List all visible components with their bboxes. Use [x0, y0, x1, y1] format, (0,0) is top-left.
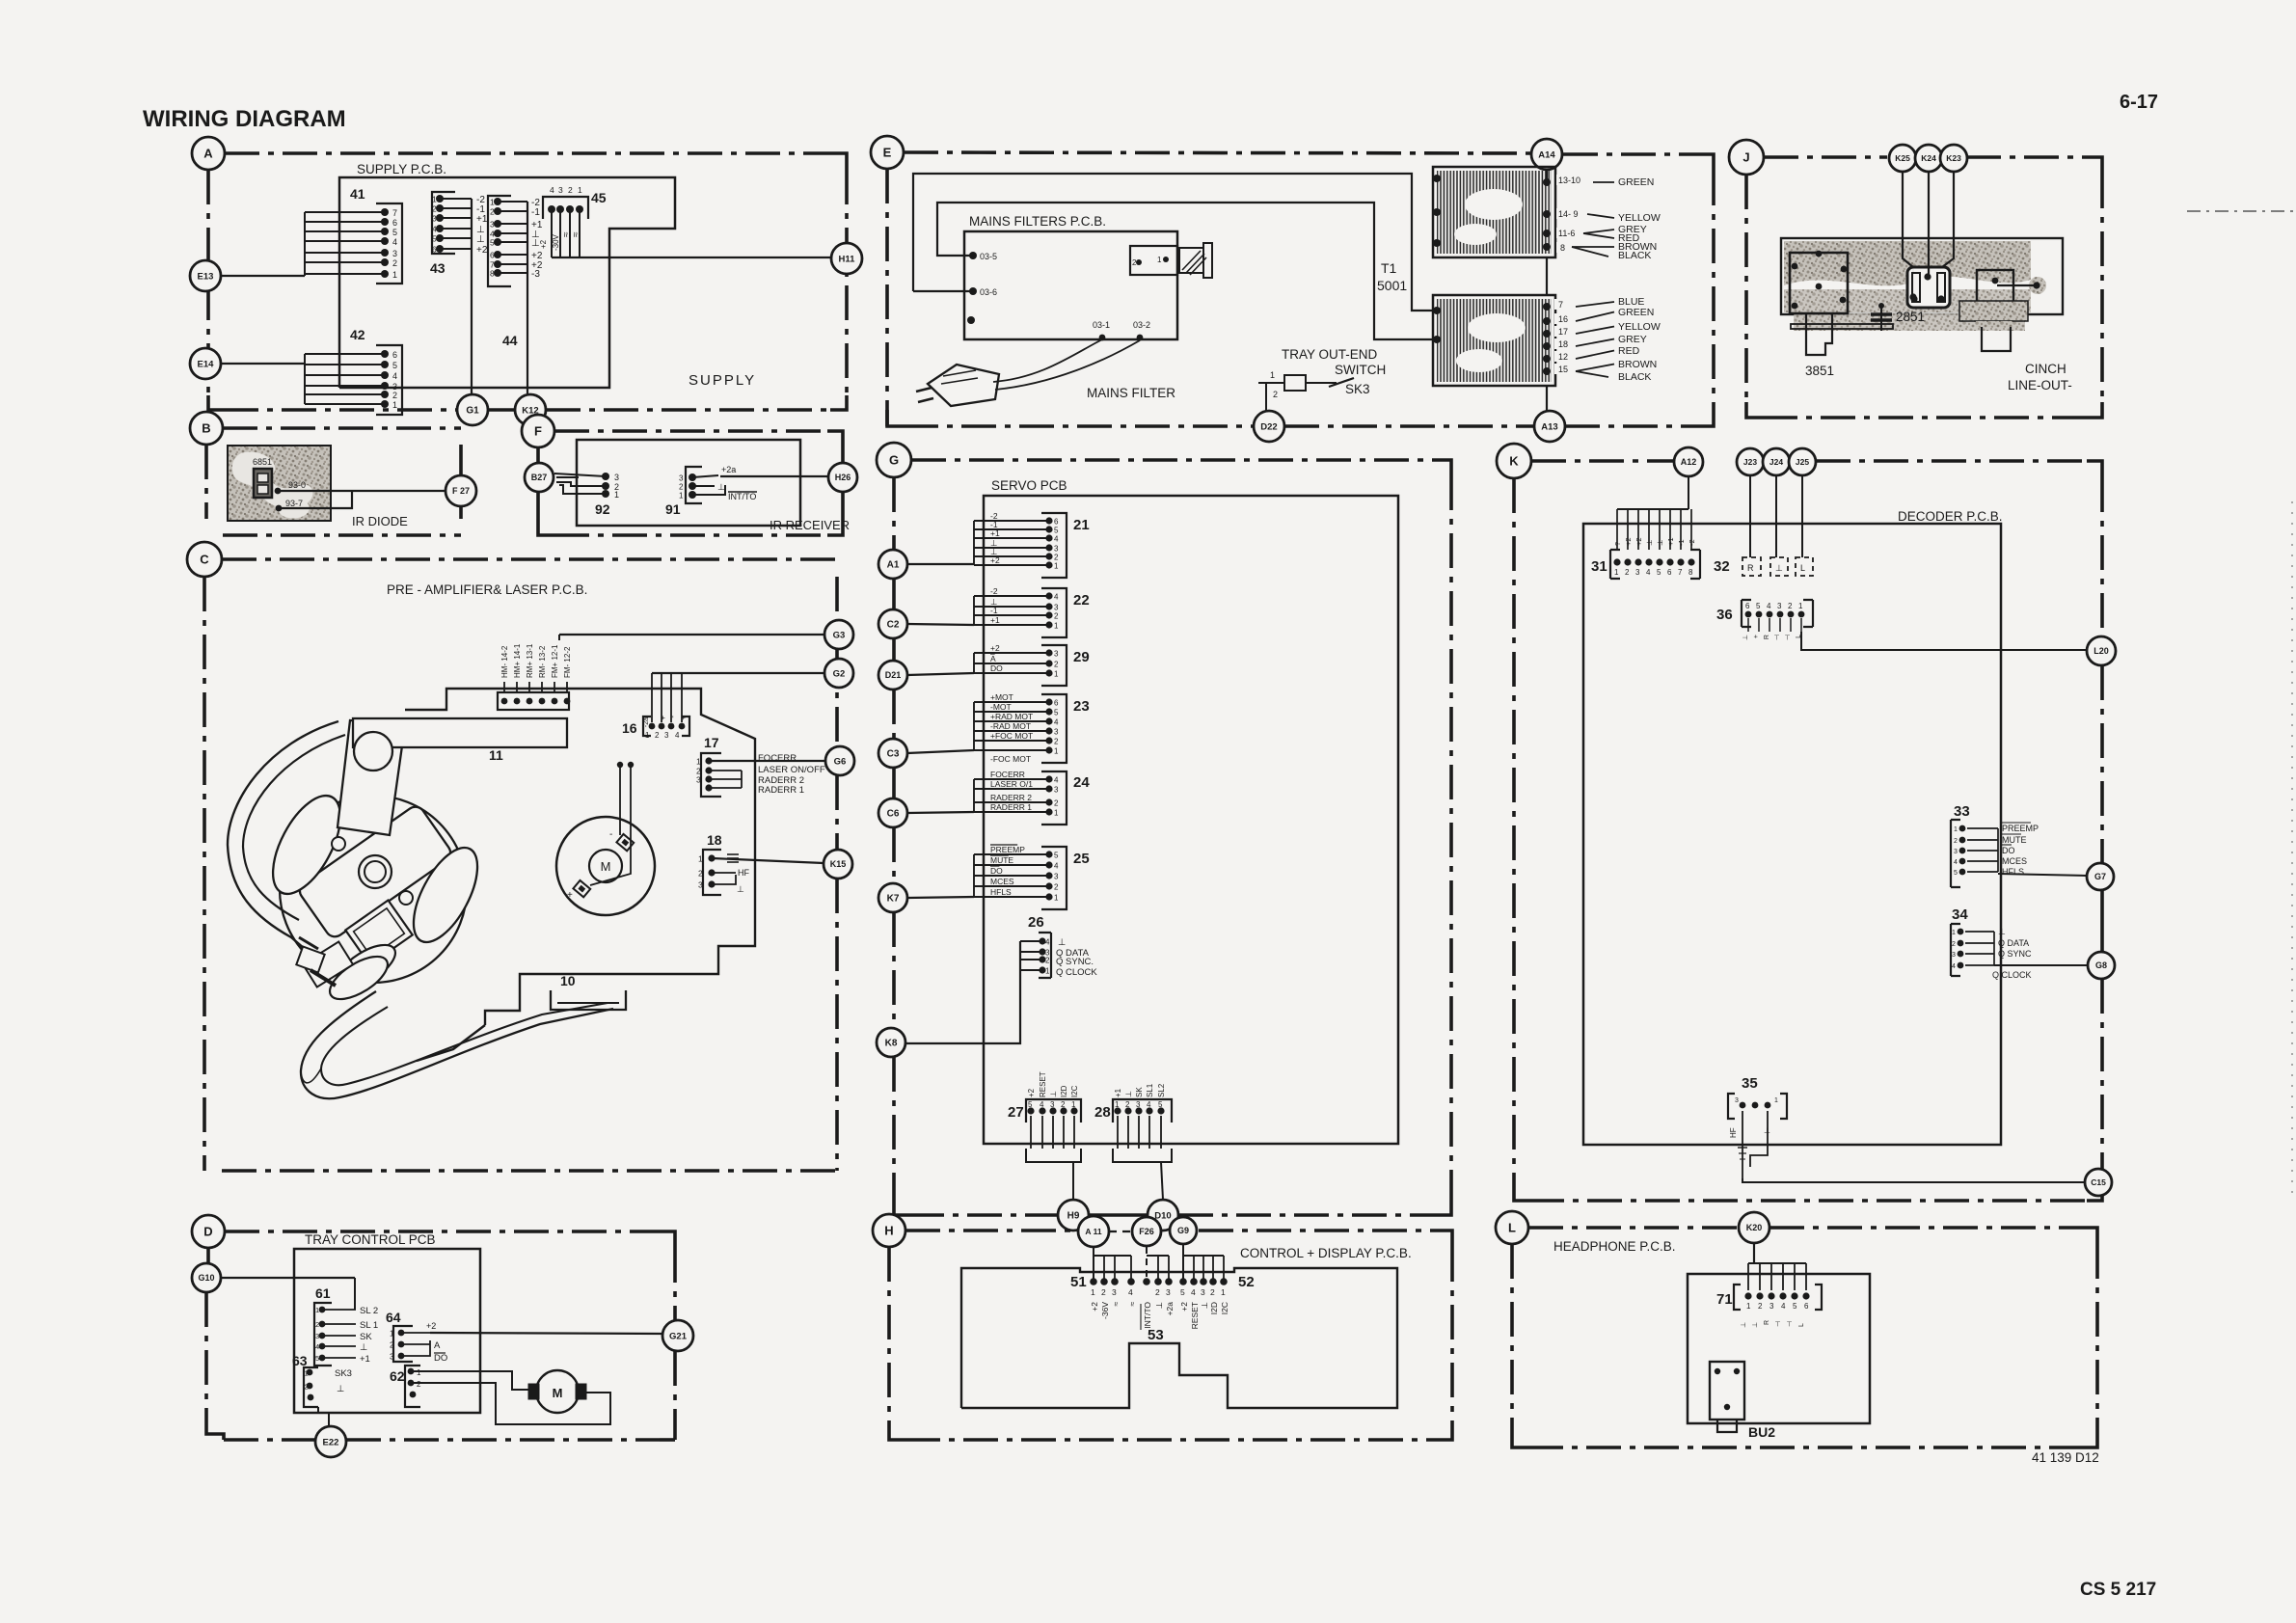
svg-text:R: R	[1747, 563, 1754, 573]
node K15	[824, 850, 852, 879]
wires connector 16 to G2	[643, 673, 825, 727]
svg-text:5: 5	[490, 238, 495, 248]
svg-text:2: 2	[1054, 738, 1059, 746]
svg-text:1: 1	[1054, 622, 1059, 631]
svg-text:GREEN: GREEN	[1618, 176, 1654, 188]
node C6	[878, 798, 907, 827]
svg-text:52: 52	[1238, 1274, 1255, 1290]
connector 64	[386, 1310, 413, 1362]
connector 41	[350, 186, 402, 284]
supply PCB outline	[339, 177, 675, 388]
svg-text:-1: -1	[990, 606, 998, 615]
svg-text:2: 2	[1625, 568, 1630, 577]
connector 18	[698, 832, 722, 895]
svg-text:+2a: +2a	[721, 465, 736, 474]
svg-text:SWITCH: SWITCH	[1335, 363, 1386, 377]
svg-text:H26: H26	[835, 473, 851, 482]
wire connector 17 to G6	[709, 760, 825, 762]
svg-text:2: 2	[305, 1383, 309, 1392]
svg-text:⊥: ⊥	[1752, 1322, 1759, 1328]
svg-text:2: 2	[417, 1380, 421, 1389]
svg-text:DECODER P.C.B.: DECODER P.C.B.	[1898, 509, 2003, 524]
svg-text:L: L	[1798, 1323, 1805, 1327]
svg-text:Q SYNC: Q SYNC	[1998, 949, 2032, 959]
svg-text:-FOC MOT: -FOC MOT	[990, 754, 1031, 764]
node H9	[1058, 1200, 1089, 1231]
svg-text:HM- 14-2: HM- 14-2	[500, 645, 509, 678]
svg-text:6-17: 6-17	[2120, 92, 2158, 113]
svg-text:3: 3	[1777, 602, 1782, 610]
svg-text:CS 5 217: CS 5 217	[2080, 1580, 2156, 1600]
wires connector 28 to D10	[1113, 1116, 1172, 1200]
svg-text:RADERR 2: RADERR 2	[990, 793, 1032, 802]
connector 34	[1951, 906, 2032, 980]
terminal blank	[967, 316, 975, 324]
scan artifact line right margin	[2187, 211, 2294, 1196]
wire J24 to socket	[1775, 475, 1777, 557]
svg-text:8: 8	[490, 269, 495, 279]
svg-text:HF: HF	[738, 868, 749, 878]
svg-text:2: 2	[315, 1320, 319, 1329]
svg-text:4: 4	[392, 371, 397, 381]
connector 24	[974, 770, 1090, 825]
svg-text:SK: SK	[360, 1332, 372, 1342]
svg-text:+FOC MOT: +FOC MOT	[990, 731, 1033, 741]
svg-text:A12: A12	[1681, 457, 1697, 467]
svg-text:J24: J24	[1769, 457, 1783, 467]
svg-text:DO: DO	[990, 866, 1003, 876]
wires connector 45	[539, 209, 581, 257]
svg-text:51: 51	[1070, 1274, 1087, 1290]
svg-text:4: 4	[550, 185, 554, 195]
svg-text:G6: G6	[834, 756, 847, 767]
svg-text:⊥: ⊥	[1058, 937, 1066, 948]
connector 28	[1094, 1083, 1172, 1123]
svg-text:4: 4	[392, 237, 397, 247]
svg-text:PRE - AMPLIFIER& LASER P.C.B: PRE - AMPLIFIER& LASER P.C.B.	[387, 582, 587, 597]
svg-text:7: 7	[1558, 300, 1563, 310]
svg-text:4: 4	[1781, 1302, 1786, 1311]
wire mains left harness B	[937, 203, 1435, 339]
node H26	[828, 463, 857, 492]
wire C2 to connector 22	[907, 624, 974, 625]
svg-text:4: 4	[1646, 568, 1651, 577]
svg-text:Q CLOCK: Q CLOCK	[1056, 967, 1097, 978]
svg-text:2: 2	[1210, 1287, 1215, 1297]
connector 32 sockets R ground L	[1714, 557, 1813, 576]
svg-text:4: 4	[1054, 535, 1059, 544]
connector 35	[1728, 1075, 1787, 1119]
wires connector 91 labels	[692, 465, 757, 501]
node E13	[190, 260, 221, 291]
svg-text:12: 12	[1558, 352, 1568, 362]
wire C6 to connector 24	[907, 812, 974, 813]
svg-text:G1: G1	[466, 406, 479, 417]
svg-text:41 139 D12: 41 139 D12	[2032, 1450, 2099, 1465]
label HEADPHONE P.C.B.	[1553, 1239, 1676, 1254]
svg-text:5: 5	[1054, 852, 1059, 860]
wire IR diode to F27	[278, 491, 446, 508]
control display PCB outline	[961, 1268, 1397, 1408]
svg-text:17: 17	[1558, 327, 1568, 337]
svg-text:MAINS FILTER: MAINS FILTER	[1087, 386, 1175, 400]
svg-text:G7: G7	[2094, 872, 2106, 881]
svg-text:1: 1	[1054, 747, 1059, 756]
svg-text:E: E	[883, 146, 892, 160]
tray control PCB outline	[294, 1249, 480, 1413]
svg-text:2: 2	[392, 258, 397, 268]
svg-text:6: 6	[392, 350, 397, 360]
section C border	[204, 559, 837, 1171]
svg-text:PREEMP: PREEMP	[2002, 824, 2039, 833]
svg-text:G9: G9	[1177, 1226, 1189, 1235]
node D21	[878, 661, 907, 690]
svg-text:2: 2	[1054, 661, 1059, 669]
svg-text:45: 45	[591, 190, 607, 205]
svg-text:3: 3	[1112, 1287, 1117, 1297]
svg-text:HF: HF	[1729, 1127, 1738, 1138]
svg-text:⊥: ⊥	[1200, 1301, 1209, 1309]
svg-text:21: 21	[1073, 517, 1090, 533]
node G3	[824, 620, 853, 649]
svg-text:I2D: I2D	[1060, 1085, 1068, 1097]
svg-text:FOCERR: FOCERR	[990, 770, 1025, 779]
svg-text:K25: K25	[1895, 153, 1910, 163]
svg-text:SL2: SL2	[1157, 1083, 1166, 1097]
svg-text:1: 1	[392, 270, 397, 280]
svg-text:32: 32	[1714, 558, 1730, 575]
label 93-7	[276, 499, 303, 511]
node H11	[831, 243, 862, 274]
line-out PCB photo	[1781, 238, 2063, 331]
svg-text:F 27: F 27	[452, 486, 470, 496]
svg-text:5: 5	[1054, 709, 1059, 717]
svg-text:⊥: ⊥	[717, 482, 725, 492]
svg-text:-2a: -2a	[643, 717, 650, 727]
svg-text:3: 3	[1635, 568, 1640, 577]
wires plug to 03-1 03-2	[993, 339, 1140, 390]
node K	[1497, 444, 1531, 478]
label SERVO PCB	[991, 478, 1067, 493]
svg-text:RM+ 13-1: RM+ 13-1	[526, 643, 534, 678]
svg-text:F26: F26	[1139, 1227, 1154, 1236]
node B27	[525, 463, 554, 492]
wire mains left harness A	[913, 174, 1435, 311]
wire G9 to pins	[1183, 1245, 1224, 1282]
node G1	[457, 394, 488, 425]
svg-text:2: 2	[432, 204, 437, 214]
svg-text:2: 2	[1132, 258, 1137, 267]
svg-text:FM- 12-2: FM- 12-2	[563, 646, 572, 678]
svg-text:G3: G3	[833, 630, 846, 640]
svg-text:5: 5	[1180, 1287, 1185, 1297]
node A11	[1078, 1216, 1109, 1247]
svg-text:I2D: I2D	[1209, 1302, 1219, 1314]
wire C3 to connector 23	[907, 750, 974, 753]
svg-text:3: 3	[390, 1353, 394, 1362]
section A border	[208, 153, 847, 410]
svg-text:RADERR 1: RADERR 1	[758, 785, 804, 796]
svg-text:HFLS: HFLS	[990, 887, 1012, 897]
wire supply PCB to H11	[552, 257, 831, 258]
connector 21	[974, 511, 1090, 578]
svg-text:Q SYNC.: Q SYNC.	[1056, 957, 1094, 967]
svg-text:D: D	[203, 1225, 212, 1239]
svg-text:5: 5	[1054, 527, 1059, 535]
svg-text:C15: C15	[2091, 1177, 2106, 1187]
svg-text:Q CLOCK: Q CLOCK	[1992, 970, 2032, 980]
svg-text:2: 2	[1054, 799, 1059, 808]
label IR RECEIVER	[770, 518, 850, 532]
svg-text:K24: K24	[1921, 153, 1936, 163]
svg-text:5: 5	[1756, 602, 1761, 610]
wire connector 36 to L20	[1801, 632, 2087, 650]
svg-text:2: 2	[1054, 554, 1059, 562]
wire connector 91 to H26	[720, 475, 828, 477]
wire E13 to connector 41	[221, 275, 305, 277]
label PRE-AMPLIFIER & LASER P.C.B.	[387, 582, 587, 597]
node C15	[2085, 1169, 2112, 1196]
svg-text:-3: -3	[531, 269, 540, 280]
connector 11	[489, 643, 572, 763]
svg-text:+2: +2	[1027, 1088, 1036, 1097]
node C2	[878, 609, 907, 638]
svg-text:6: 6	[1054, 699, 1059, 708]
svg-text:62: 62	[390, 1368, 405, 1384]
terminal 03-2	[1133, 320, 1150, 340]
svg-text:1: 1	[698, 854, 703, 864]
svg-text:RED: RED	[1618, 345, 1640, 357]
svg-text:63: 63	[292, 1353, 308, 1368]
svg-text:1: 1	[679, 492, 684, 500]
svg-text:Q DATA: Q DATA	[1998, 938, 2029, 948]
svg-text:+MOT: +MOT	[990, 692, 1013, 702]
svg-text:18: 18	[707, 832, 722, 848]
svg-text:⊣: ⊣	[1774, 635, 1781, 640]
svg-text:5: 5	[1158, 1100, 1163, 1109]
svg-text:4: 4	[1054, 776, 1059, 785]
svg-text:⊥: ⊥	[1154, 1301, 1164, 1309]
node J	[1729, 140, 1764, 175]
svg-text:2: 2	[390, 1341, 394, 1350]
svg-text:2: 2	[1273, 390, 1278, 399]
svg-text:+2a: +2a	[1165, 1302, 1175, 1316]
svg-text:K8: K8	[885, 1039, 898, 1049]
svg-text:5001: 5001	[1377, 278, 1407, 293]
connector 10 bracket	[551, 990, 626, 1010]
svg-text:FOCERR: FOCERR	[758, 753, 797, 764]
svg-text:1: 1	[696, 757, 701, 767]
svg-text:SUPPLY P.C.B.: SUPPLY P.C.B.	[357, 162, 446, 176]
svg-text:1: 1	[1614, 568, 1619, 577]
wire connector 44 to K12	[527, 202, 528, 393]
node E22	[315, 1426, 346, 1457]
IR receiver board outline	[577, 440, 800, 526]
page number 6-17	[2120, 92, 2158, 113]
svg-text:3: 3	[1201, 1287, 1205, 1297]
svg-text:A: A	[203, 147, 213, 161]
node G7	[2087, 863, 2114, 890]
wires connector 41 harness	[305, 212, 385, 276]
svg-text:2: 2	[490, 207, 495, 217]
section F border	[538, 431, 843, 535]
svg-text:3: 3	[1952, 952, 1956, 959]
svg-text:2: 2	[1054, 883, 1059, 892]
mains switch component	[1130, 246, 1177, 275]
headphone PCB outline	[1688, 1274, 1870, 1423]
svg-text:4: 4	[1040, 1100, 1044, 1109]
node G2	[824, 659, 853, 688]
svg-text:91: 91	[665, 501, 681, 517]
wire K7 to connector 25	[907, 897, 974, 898]
svg-text:J23: J23	[1743, 457, 1757, 467]
svg-text:28: 28	[1094, 1104, 1111, 1121]
label CONTROL+DISPLAY P.C.B.	[1240, 1246, 1412, 1260]
svg-text:4: 4	[1054, 593, 1059, 602]
node D22	[1254, 411, 1284, 442]
svg-text:17: 17	[704, 735, 719, 750]
svg-text:SUPPLY: SUPPLY	[689, 372, 756, 389]
svg-text:IR DIODE: IR DIODE	[352, 514, 408, 528]
svg-text:34: 34	[1952, 906, 1968, 923]
svg-text:3: 3	[1054, 604, 1059, 612]
svg-text:L20: L20	[2093, 646, 2109, 656]
label MAINS FILTER	[1087, 386, 1175, 400]
svg-text:2: 2	[655, 731, 660, 740]
svg-text:1: 1	[1798, 602, 1803, 610]
PCB mounting feet	[1791, 313, 1893, 355]
connector 52 pins	[1179, 1274, 1255, 1329]
wire connector 62 to motor	[411, 1371, 529, 1390]
svg-text:1: 1	[1054, 809, 1059, 818]
svg-text:4: 4	[1128, 1287, 1133, 1297]
svg-text:1: 1	[1115, 1100, 1120, 1109]
svg-text:BLACK: BLACK	[1618, 250, 1651, 261]
svg-text:11-6: 11-6	[1558, 229, 1575, 238]
svg-text:⊥: ⊥	[1741, 1322, 1747, 1328]
svg-text:5: 5	[432, 234, 437, 244]
wires connector 27 to H9	[1026, 1116, 1081, 1200]
svg-text:C6: C6	[887, 809, 900, 820]
svg-text:A: A	[990, 654, 996, 663]
connector 61	[314, 1285, 378, 1366]
line-out relay component	[1907, 267, 1950, 308]
transformer T1 upper winding	[1433, 167, 1555, 257]
svg-text:SK3: SK3	[1345, 382, 1370, 396]
svg-text:SL1: SL1	[1146, 1083, 1154, 1097]
svg-text:43: 43	[430, 260, 446, 276]
optical pickup mechanism drawing	[228, 718, 613, 1098]
svg-text:+: +	[679, 716, 688, 720]
wire connector 34 to G8	[1994, 964, 2088, 966]
svg-text:+1: +1	[990, 528, 1000, 538]
wire K23 into PCB	[1942, 172, 1954, 267]
svg-text:⊣: ⊣	[1785, 635, 1792, 640]
svg-text:1: 1	[1270, 370, 1275, 380]
connector 42	[350, 327, 402, 415]
svg-text:K15: K15	[830, 859, 847, 869]
mains filter PCB outline	[964, 231, 1177, 339]
svg-text:SK3: SK3	[335, 1368, 352, 1379]
svg-text:03-2: 03-2	[1133, 320, 1150, 330]
svg-text:6: 6	[1804, 1302, 1809, 1311]
section B border	[206, 428, 461, 535]
svg-text:26: 26	[1028, 914, 1044, 931]
transformer T1 lower winding	[1433, 295, 1555, 386]
svg-text:+2: +2	[990, 555, 1000, 565]
svg-text:⊣: ⊣	[1775, 1321, 1782, 1327]
svg-text:CONTROL + DISPLAY P.C.B.: CONTROL + DISPLAY P.C.B.	[1240, 1246, 1412, 1260]
svg-text:-: -	[609, 829, 612, 840]
svg-text:-MOT: -MOT	[990, 702, 1012, 712]
connector 36	[1716, 600, 1813, 640]
svg-text:TRAY CONTROL PCB: TRAY CONTROL PCB	[305, 1232, 436, 1247]
node G10	[192, 1263, 221, 1292]
node A13	[1534, 411, 1565, 442]
svg-text:T1: T1	[1381, 260, 1397, 276]
svg-text:-2: -2	[990, 586, 998, 596]
line-out PCB left module	[1790, 251, 1848, 313]
svg-text:E22: E22	[323, 1437, 339, 1447]
node K24	[1915, 145, 1942, 172]
svg-text:C: C	[200, 553, 209, 567]
svg-text:4: 4	[675, 731, 680, 740]
svg-text:42: 42	[350, 327, 365, 342]
svg-text:71: 71	[1716, 1291, 1733, 1308]
node F26	[1132, 1217, 1161, 1246]
svg-text:2: 2	[568, 185, 573, 195]
node G9	[1170, 1217, 1197, 1244]
svg-text:YELLOW: YELLOW	[1618, 212, 1661, 224]
section H border	[889, 1231, 1452, 1440]
svg-text:H: H	[884, 1224, 893, 1238]
svg-text:+: +	[567, 890, 573, 901]
svg-text:3: 3	[1054, 650, 1059, 659]
svg-text:5: 5	[1793, 1302, 1797, 1311]
servo PCB outline	[984, 496, 1398, 1144]
svg-text:64: 64	[386, 1310, 401, 1325]
svg-text:3: 3	[558, 185, 563, 195]
svg-text:+2: +2	[476, 245, 488, 256]
svg-text:+: +	[1753, 635, 1760, 638]
svg-text:1: 1	[490, 198, 495, 207]
connector 23	[974, 692, 1090, 764]
svg-text:C2: C2	[887, 620, 900, 631]
node J23	[1737, 448, 1764, 475]
svg-text:1: 1	[614, 490, 619, 500]
svg-text:1: 1	[1054, 894, 1059, 903]
svg-text:13-10: 13-10	[1558, 176, 1580, 185]
connector 91	[665, 467, 702, 517]
svg-text:+1: +1	[360, 1354, 370, 1365]
svg-text:4: 4	[1054, 718, 1059, 727]
svg-text:2: 2	[1054, 612, 1059, 621]
svg-text:⊥: ⊥	[1049, 1091, 1058, 1097]
svg-text:3: 3	[696, 775, 701, 785]
svg-text:⊣: ⊣	[1787, 1321, 1794, 1327]
svg-text:92: 92	[595, 501, 610, 517]
terminal 03-5	[969, 252, 997, 261]
svg-text:1: 1	[1157, 256, 1162, 264]
svg-text:H11: H11	[839, 254, 856, 264]
svg-text:GREY: GREY	[1618, 334, 1647, 345]
IR diode PCB photo	[228, 446, 331, 521]
node F27	[446, 475, 476, 506]
svg-text:5: 5	[392, 361, 397, 370]
svg-text:⊥: ⊥	[337, 1384, 344, 1394]
svg-text:1: 1	[1054, 562, 1059, 571]
wires connector 31 to A12	[1617, 476, 1691, 550]
